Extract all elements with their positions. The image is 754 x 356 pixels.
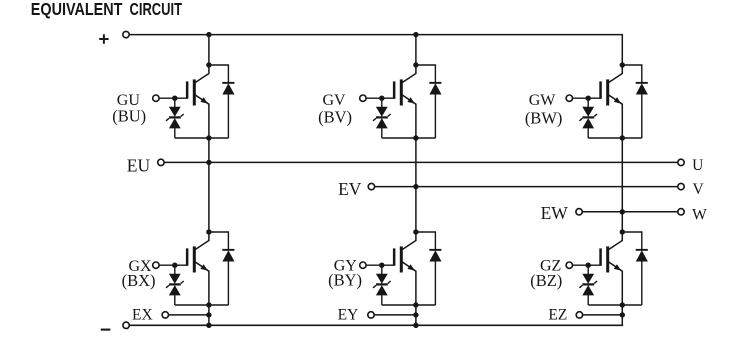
svg-text:EX: EX xyxy=(132,307,153,324)
svg-text:EU: EU xyxy=(127,155,151,175)
svg-text:GV: GV xyxy=(322,92,346,109)
svg-text:EW: EW xyxy=(541,203,569,223)
svg-text:U: U xyxy=(692,157,703,174)
svg-text:(BZ): (BZ) xyxy=(530,271,562,290)
svg-text:EZ: EZ xyxy=(548,307,567,324)
svg-text:V: V xyxy=(693,181,705,198)
svg-text:EY: EY xyxy=(338,307,359,324)
svg-text:EV: EV xyxy=(338,179,362,199)
svg-text:(BU): (BU) xyxy=(112,106,146,125)
svg-text:EQUIVALENT: EQUIVALENT xyxy=(31,0,123,20)
svg-text:(BX): (BX) xyxy=(122,271,156,290)
svg-text:(BV): (BV) xyxy=(318,108,352,127)
svg-text:W: W xyxy=(692,206,707,223)
svg-text:CIRCUIT: CIRCUIT xyxy=(130,0,183,20)
svg-text:(BY): (BY) xyxy=(328,270,362,289)
svg-text:(BW): (BW) xyxy=(525,108,563,127)
svg-text:GW: GW xyxy=(529,92,557,109)
